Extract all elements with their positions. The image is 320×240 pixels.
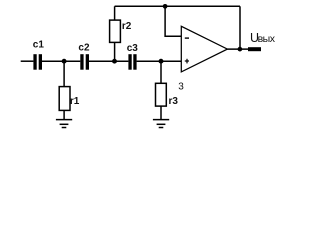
wire c2 to c3 <box>89 60 128 62</box>
svg-text:r1: r1 <box>70 96 80 107</box>
node B (junction c2/c3/r2) <box>112 59 117 64</box>
svg-text:c2: c2 <box>78 42 90 53</box>
node C (junction c3/r3/opamp) <box>159 59 164 64</box>
wire c3 to op-amp plus input <box>137 60 182 62</box>
resistor r3 <box>156 61 167 120</box>
svg-text:вых: вых <box>258 33 276 45</box>
op-amp U1 <box>181 26 227 72</box>
ground (r3) <box>153 120 169 128</box>
svg-text:3: 3 <box>178 82 184 93</box>
svg-text:r3: r3 <box>169 96 179 107</box>
capacitor c3 <box>128 54 136 69</box>
wire op-amp output <box>227 48 248 50</box>
node E (output junction) <box>238 47 243 52</box>
wire top feedback <box>115 5 240 7</box>
capacitor c1 <box>33 54 42 69</box>
node D (feedback tap) <box>163 4 168 9</box>
capacitor c2 <box>80 54 89 69</box>
wire c1 to c2 <box>42 60 80 62</box>
node A (junction c1/c2/r1) <box>62 59 67 64</box>
ground (r1) <box>56 120 72 128</box>
resistor r2 <box>110 6 121 61</box>
wire input segment <box>21 60 34 62</box>
resistor r1 <box>59 61 70 120</box>
wire feedback down to minus input <box>165 6 181 36</box>
svg-text:c3: c3 <box>127 43 139 54</box>
output terminal bar <box>248 47 261 51</box>
svg-text:c1: c1 <box>33 40 45 51</box>
svg-text:r2: r2 <box>122 21 132 32</box>
wire output riser <box>239 6 241 49</box>
